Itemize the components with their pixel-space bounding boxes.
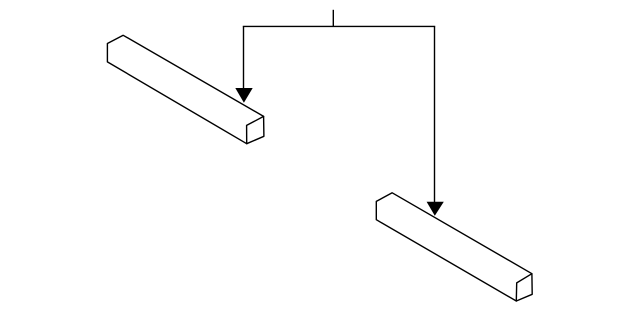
right molding bar (part 2)	[376, 193, 532, 301]
left bar end-cap edges	[247, 116, 264, 143]
left bar outline	[107, 35, 264, 143]
right bar outline	[376, 193, 532, 301]
right bar end-cap edges	[516, 274, 532, 301]
left molding bar (part 1)	[107, 35, 264, 143]
bracket horizontal wire	[243, 25, 435, 27]
right leader wire	[434, 26, 436, 203]
callout tick	[332, 10, 334, 27]
left arrowhead	[235, 88, 252, 103]
callout bracket	[243, 10, 435, 203]
right arrowhead	[427, 202, 444, 216]
left leader wire	[243, 26, 245, 90]
